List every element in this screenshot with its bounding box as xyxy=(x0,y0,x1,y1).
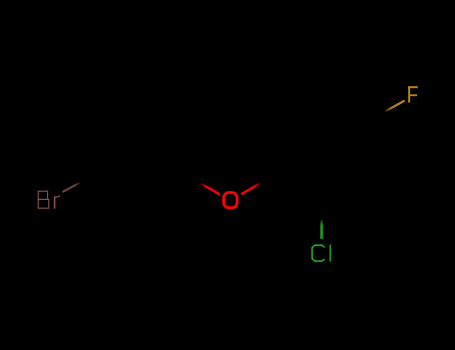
bond O-C1(ring) (red half-bond, right of O) xyxy=(241,183,260,194)
bond C3-O (red half-bond, left of O) xyxy=(201,184,220,195)
atom label Br (letter r) xyxy=(54,196,60,209)
bond C2(ring)-Cl (green vertical half-bond) xyxy=(320,220,323,239)
bond C4(ring)-F (gold half-bond) xyxy=(385,101,404,112)
atom label Cl (letter l) xyxy=(329,244,331,261)
atom label O (ether oxygen, red ring) xyxy=(224,193,238,208)
atom label F (fluorine, goldenrod) xyxy=(408,86,418,102)
bond C3-Br (brown half-bond) xyxy=(63,183,81,193)
atom label Cl (letter C) xyxy=(312,245,325,261)
atom label Br (letter B, outlined block form) xyxy=(38,191,49,208)
